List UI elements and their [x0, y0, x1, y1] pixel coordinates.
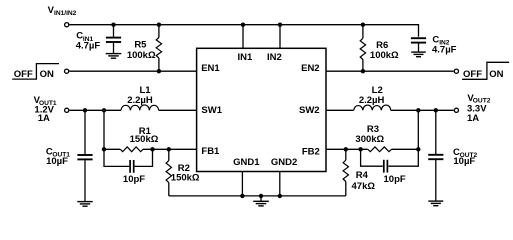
label OFF left	[14, 69, 33, 80]
svg-text:1A: 1A	[467, 113, 479, 124]
terminal VIN	[65, 23, 69, 27]
svg-text:47kΩ: 47kΩ	[352, 181, 376, 192]
svg-text:IN1/IN2: IN1/IN2	[54, 10, 77, 17]
terminal EN2	[454, 69, 458, 73]
wire R3 to node B	[392, 148, 419, 150]
wire FB2 pin to R3	[326, 148, 368, 150]
wire FB1 node	[104, 148, 120, 150]
svg-text:10µF: 10µF	[46, 156, 68, 167]
svg-text:2.2µH: 2.2µH	[359, 95, 385, 106]
junction IN2 rail	[278, 23, 282, 27]
junction R2 top	[167, 147, 171, 151]
label C2 10pF	[384, 174, 406, 185]
svg-text:GND2: GND2	[271, 157, 297, 168]
svg-text:GND1: GND1	[233, 157, 260, 168]
svg-text:R4: R4	[356, 170, 369, 181]
svg-text:ON: ON	[489, 69, 503, 80]
svg-text:1A: 1A	[38, 113, 50, 124]
svg-text:ON: ON	[40, 69, 54, 80]
label R3 value	[355, 124, 384, 145]
wire ground rail	[169, 195, 346, 197]
wire SW1 to L1	[69, 109, 121, 111]
capacitor COUT1	[77, 110, 92, 201]
junction node B top	[416, 108, 420, 112]
capacitor CIN2	[411, 38, 426, 52]
switch S2 OFF/ON	[462, 62, 509, 79]
wire R1 to FB1 pin	[143, 148, 197, 150]
wire L2 to VOUT2	[391, 109, 454, 111]
label COUT2 value	[453, 147, 478, 167]
pin GND1	[233, 157, 260, 168]
capacitor C1 10pF left	[104, 149, 153, 173]
label VOUT1	[34, 95, 57, 124]
label CIN1 value	[76, 31, 101, 52]
junction R5 rail	[157, 23, 161, 27]
wire EN2 net	[326, 70, 454, 72]
resistor R4	[343, 149, 348, 196]
wire node B riser	[417, 110, 419, 149]
wire IN2 pin drop	[279, 25, 281, 49]
resistor R1	[120, 147, 143, 152]
svg-text:4.7µF: 4.7µF	[76, 40, 101, 51]
junction R6 rail	[361, 23, 365, 27]
terminal VOUT2	[454, 108, 458, 112]
svg-text:OFF: OFF	[14, 69, 33, 80]
label L1 value	[127, 85, 153, 106]
svg-text:IN2: IN2	[267, 52, 282, 63]
svg-text:100kΩ: 100kΩ	[127, 50, 156, 61]
ground COUT2	[428, 201, 443, 206]
junction GND2 rail	[278, 194, 282, 198]
pin FB1	[201, 146, 220, 157]
label C1 10pF	[123, 174, 145, 185]
svg-text:2.2µH: 2.2µH	[127, 95, 153, 106]
pin IN2	[267, 52, 282, 63]
resistor R6	[360, 25, 365, 71]
label CIN2 value	[432, 34, 457, 55]
label L2 value	[359, 85, 385, 106]
pin GND2	[271, 157, 297, 168]
label R6 value	[370, 40, 399, 61]
wire SW2 pin to L2	[326, 109, 354, 111]
capacitor CIN1	[106, 25, 121, 54]
svg-text:100kΩ: 100kΩ	[370, 50, 399, 61]
svg-text:4.7µF: 4.7µF	[432, 44, 457, 55]
pin FB2	[302, 146, 320, 157]
capacitor COUT2	[428, 110, 443, 201]
resistor R5	[156, 25, 161, 71]
svg-text:EN2: EN2	[301, 63, 319, 74]
label VIN1/IN2	[48, 5, 77, 17]
ground CIN1	[106, 54, 122, 59]
inductor L2	[354, 105, 391, 110]
junction FB branch bottom	[102, 147, 106, 151]
label R2 value	[171, 163, 200, 184]
node VIN top rail	[69, 24, 418, 26]
junction R1 right	[150, 147, 154, 151]
svg-text:R5: R5	[134, 39, 147, 50]
junction R5 EN1	[157, 69, 161, 73]
junction R4 top	[344, 147, 348, 151]
svg-text:SW2: SW2	[299, 105, 320, 116]
wire GND2 pin drop	[279, 172, 281, 196]
wire IN1 pin drop	[242, 25, 244, 49]
junction COUT2 top	[434, 108, 438, 112]
wire VOUT1 branch drop	[103, 110, 105, 149]
resistor R2	[166, 149, 171, 196]
label OFF right	[463, 69, 482, 80]
switch S1 OFF/ON	[12, 64, 59, 80]
pin EN1	[201, 63, 220, 74]
label VOUT2	[467, 93, 491, 124]
pin SW1	[201, 105, 222, 116]
ground CIN2	[411, 52, 426, 57]
label ON right	[489, 69, 503, 80]
junction R6 EN2	[361, 69, 365, 73]
svg-text:10µF: 10µF	[453, 156, 475, 167]
svg-text:10pF: 10pF	[384, 174, 406, 185]
svg-text:EN1: EN1	[201, 63, 220, 74]
svg-text:FB2: FB2	[302, 146, 320, 157]
wire C_IN2 drop from rail	[418, 24, 420, 37]
junction node B	[416, 147, 420, 151]
wire EN1 net	[69, 70, 196, 72]
inductor L1	[121, 105, 159, 110]
svg-text:FB1: FB1	[201, 146, 220, 157]
IC U1 regulator box	[197, 48, 326, 171]
svg-text:300kΩ: 300kΩ	[355, 134, 384, 145]
terminal EN1	[65, 69, 69, 73]
svg-text:IN1: IN1	[238, 52, 254, 63]
junction CIN1 rail	[111, 23, 115, 27]
junction gnd stem	[259, 194, 263, 198]
junction IN1 rail	[241, 23, 245, 27]
svg-text:OFF: OFF	[463, 69, 482, 80]
pin SW2	[299, 105, 320, 116]
wire L1 to SW1 pin	[159, 109, 197, 111]
junction COUT1 top	[83, 108, 87, 112]
label R1 value	[130, 126, 159, 145]
junction GND1 rail	[240, 194, 244, 198]
ground COUT1	[77, 202, 92, 207]
label R5 value	[127, 39, 156, 60]
pin EN2	[301, 63, 319, 74]
svg-text:SW1: SW1	[201, 105, 222, 116]
ground center	[253, 196, 269, 206]
label R4 value	[352, 170, 376, 192]
label ON left	[40, 69, 54, 80]
junction C2 left	[358, 147, 362, 151]
wire GND1 pin drop	[241, 172, 243, 196]
label COUT1 value	[46, 147, 70, 167]
terminal VOUT1	[65, 108, 69, 112]
svg-text:10pF: 10pF	[123, 174, 145, 185]
svg-text:150kΩ: 150kΩ	[171, 173, 200, 184]
resistor R3	[368, 147, 392, 152]
pin IN1	[238, 52, 254, 63]
capacitor C2 10pF right	[361, 149, 419, 172]
junction FB branch top	[102, 108, 106, 112]
svg-text:150kΩ: 150kΩ	[130, 134, 159, 145]
